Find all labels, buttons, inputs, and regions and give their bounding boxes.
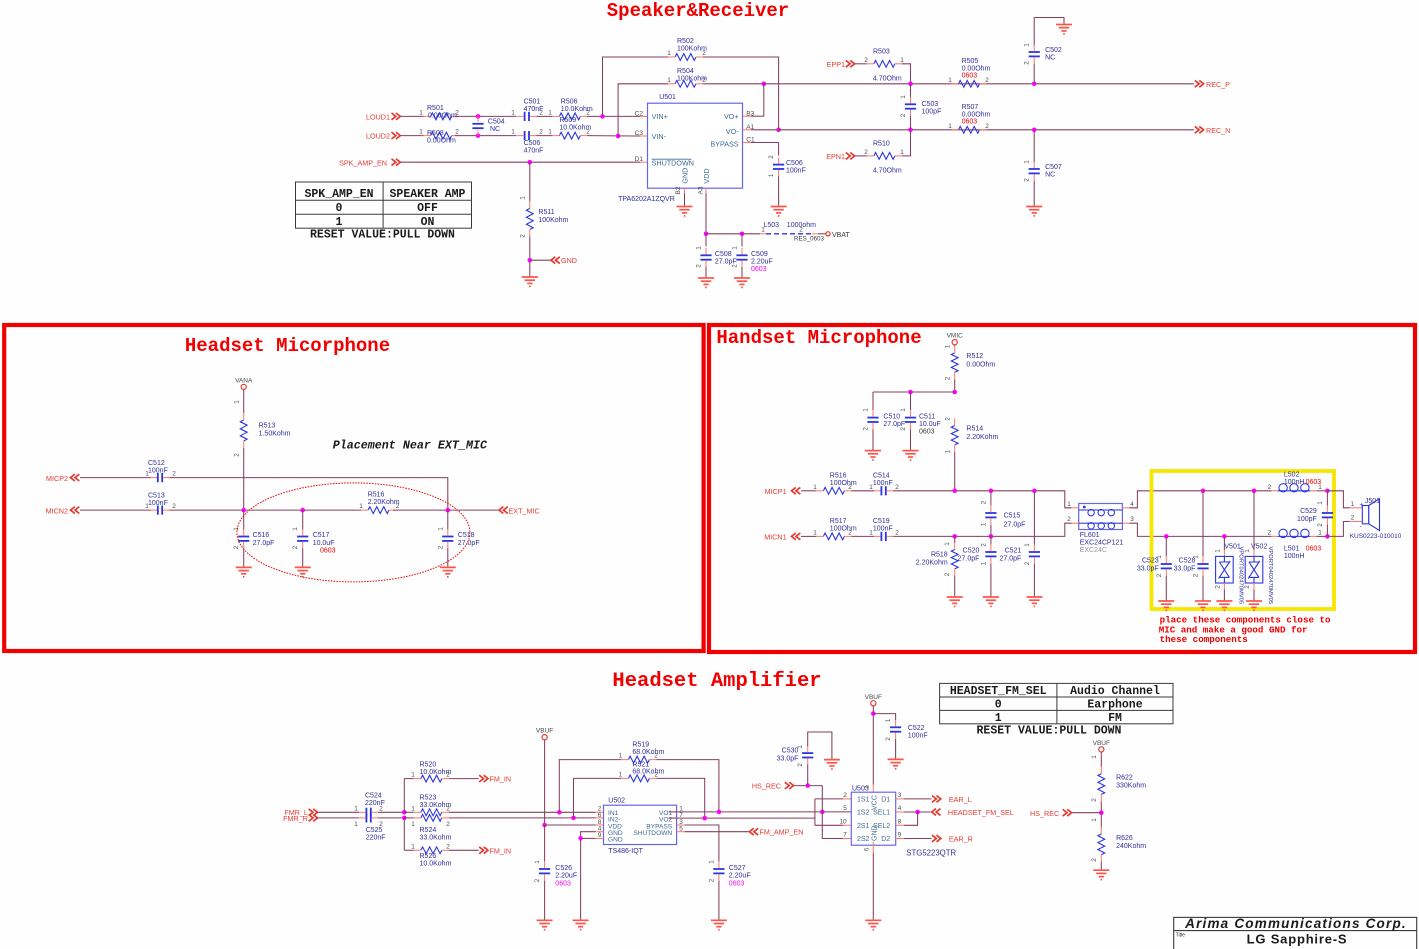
svg-text:R504: R504 xyxy=(677,68,694,75)
svg-text:1: 1 xyxy=(419,129,423,136)
node VMIC rail right xyxy=(952,390,957,395)
ground C502 top xyxy=(1056,24,1072,26)
ground below R511 xyxy=(522,276,538,278)
svg-text:R503: R503 xyxy=(873,48,890,55)
svg-text:2: 2 xyxy=(945,376,952,380)
amplifier U502 xyxy=(604,805,677,844)
ground U503 xyxy=(865,919,881,921)
inductor L503 xyxy=(760,233,766,235)
svg-text:C512: C512 xyxy=(148,460,165,467)
wire R520 to FM_IN xyxy=(449,778,479,780)
ground C521 xyxy=(1026,596,1042,598)
resistor R519 xyxy=(559,760,621,813)
svg-text:100nH: 100nH xyxy=(1284,553,1305,560)
port REC_N xyxy=(1195,126,1204,133)
svg-text:2: 2 xyxy=(1268,530,1272,537)
svg-text:2: 2 xyxy=(980,500,987,504)
svg-text:NC: NC xyxy=(1045,55,1055,62)
wire LOUD1 to R501 xyxy=(401,115,424,117)
svg-text:C526: C526 xyxy=(555,865,572,872)
resistor R512 xyxy=(951,353,958,372)
svg-text:1: 1 xyxy=(948,77,952,84)
svg-text:VDD: VDD xyxy=(702,168,711,183)
capacitor C525 xyxy=(365,813,367,822)
node C503 bottom xyxy=(908,128,913,133)
wire VO2 line xyxy=(669,817,677,819)
wire VDD pin to VBUF rail xyxy=(596,824,604,826)
svg-text:1: 1 xyxy=(667,77,671,84)
resistor R520 xyxy=(421,775,442,782)
svg-text:100pF: 100pF xyxy=(922,109,942,116)
svg-text:R505: R505 xyxy=(962,58,979,65)
wire R524 to U502 IN2- xyxy=(449,817,596,819)
svg-text:R519: R519 xyxy=(632,741,649,748)
svg-text:Headset Amplifier: Headset Amplifier xyxy=(612,670,821,693)
wire VBUF down xyxy=(544,740,546,825)
capacitor C520 xyxy=(990,536,992,544)
svg-text:RESET VALUE:PULL DOWN: RESET VALUE:PULL DOWN xyxy=(310,228,455,241)
svg-text:VMIC: VMIC xyxy=(947,333,964,340)
svg-text:LOUD2: LOUD2 xyxy=(366,132,390,141)
svg-text:NC: NC xyxy=(1045,172,1055,179)
node FM R xyxy=(402,816,407,821)
svg-text:1: 1 xyxy=(945,344,952,348)
wire VMIC to R512 xyxy=(954,345,956,346)
svg-text:1: 1 xyxy=(995,712,1002,725)
svg-text:240Kohm: 240Kohm xyxy=(1116,843,1146,850)
resistor R518 xyxy=(954,536,956,543)
node C517 top xyxy=(300,508,305,513)
node VO+ feedback xyxy=(762,82,767,87)
svg-text:220nF: 220nF xyxy=(365,800,385,807)
resistor R524 xyxy=(404,817,414,819)
wire C519 to FL601 corner xyxy=(893,523,1072,536)
svg-text:GND: GND xyxy=(871,825,878,841)
svg-text:C522: C522 xyxy=(908,725,925,732)
wire U503 GND down xyxy=(872,842,874,853)
svg-text:SPK_AMP_EN: SPK_AMP_EN xyxy=(304,188,373,201)
svg-text:VPORT0402470MV05: VPORT0402470MV05 xyxy=(1238,547,1244,605)
svg-text:0: 0 xyxy=(336,202,343,215)
wire C512 to corner xyxy=(170,478,448,511)
svg-text:C513: C513 xyxy=(148,492,165,499)
svg-text:B3: B3 xyxy=(746,110,754,117)
wire FL601 pin3 to yellow box xyxy=(1130,523,1272,536)
svg-text:1: 1 xyxy=(1024,43,1031,47)
svg-text:C525: C525 xyxy=(366,827,383,834)
svg-text:2: 2 xyxy=(885,737,892,741)
port HEADSET_FM_SEL xyxy=(932,809,941,816)
svg-text:2: 2 xyxy=(945,417,952,421)
resistor R501 xyxy=(431,113,452,120)
svg-text:C516: C516 xyxy=(253,532,270,539)
wire GND pins xyxy=(596,831,604,833)
svg-text:4: 4 xyxy=(1130,501,1134,508)
resistor R517 xyxy=(823,533,844,540)
ground C508 xyxy=(698,277,714,279)
capacitor C522 xyxy=(890,726,901,728)
svg-text:0603: 0603 xyxy=(1306,545,1322,552)
wire R523 to U502 IN1 xyxy=(449,811,596,813)
svg-text:1: 1 xyxy=(1091,818,1098,822)
svg-text:KUS0223-010010: KUS0223-010010 xyxy=(1350,533,1402,540)
power VMIC xyxy=(952,340,957,345)
svg-text:1: 1 xyxy=(1067,501,1071,508)
wire REC_P line xyxy=(764,83,1194,85)
svg-text:Speaker&Receiver: Speaker&Receiver xyxy=(607,0,789,22)
capacitor C506 bypass xyxy=(773,164,784,166)
svg-text:2: 2 xyxy=(1351,515,1355,522)
svg-text:1.50Kohm: 1.50Kohm xyxy=(259,430,291,437)
wire R504 feedback left xyxy=(618,84,668,136)
wire L502 to C529 xyxy=(1317,490,1328,492)
op-amp U501 xyxy=(648,103,743,188)
svg-text:1: 1 xyxy=(336,216,343,229)
svg-text:2: 2 xyxy=(1268,484,1272,491)
svg-text:R516: R516 xyxy=(830,472,847,479)
capacitor C521 xyxy=(1033,491,1035,545)
capacitor C503 xyxy=(905,103,916,105)
svg-text:0603: 0603 xyxy=(320,548,336,555)
svg-text:1: 1 xyxy=(520,196,527,200)
node C504 bottom xyxy=(476,133,481,138)
table SPK_AMP_EN xyxy=(296,182,472,228)
svg-text:1: 1 xyxy=(732,246,739,250)
node VDD vbuf xyxy=(542,823,547,828)
resistor R508 xyxy=(431,132,452,139)
port EAR_L xyxy=(932,796,941,803)
svg-text:2: 2 xyxy=(1067,516,1071,523)
capacitor C513 xyxy=(157,506,159,515)
svg-text:2: 2 xyxy=(520,234,527,238)
wire EPP1 to R503 xyxy=(855,63,867,65)
svg-text:VO+: VO+ xyxy=(724,112,739,121)
svg-text:these components: these components xyxy=(1160,634,1248,645)
svg-text:C506: C506 xyxy=(786,160,803,167)
wire EPN1 to R510 xyxy=(855,155,867,157)
svg-text:D1: D1 xyxy=(881,797,890,804)
wire VO1 line xyxy=(669,811,677,813)
svg-text:C524: C524 xyxy=(365,793,382,800)
wire U501 BYPASS to C506 xyxy=(743,142,751,144)
wire R514 to MICP1 line xyxy=(954,452,956,491)
svg-text:1: 1 xyxy=(900,149,904,156)
wire VBUF mid down xyxy=(872,706,874,785)
ground C528 xyxy=(1195,600,1211,602)
ground C509 xyxy=(734,277,750,279)
wire LOUD2 to R508 xyxy=(401,135,424,137)
svg-text:0.00Ohm: 0.00Ohm xyxy=(962,111,991,118)
ground C517 xyxy=(295,566,311,568)
capacitor C518 xyxy=(447,510,449,529)
capacitor C526 xyxy=(544,825,546,862)
svg-text:2: 2 xyxy=(944,572,951,576)
svg-text:VANA: VANA xyxy=(235,377,253,384)
svg-text:1: 1 xyxy=(1317,501,1324,505)
svg-text:C509: C509 xyxy=(751,251,768,258)
node R513 bottom xyxy=(241,508,246,513)
svg-text:2: 2 xyxy=(1091,798,1098,802)
svg-text:1: 1 xyxy=(534,860,541,864)
svg-text:VO-: VO- xyxy=(726,127,739,136)
wire C529 to J501 pin1 xyxy=(1327,491,1349,508)
svg-text:2.20uF: 2.20uF xyxy=(555,873,577,880)
resistor R504 xyxy=(675,80,696,87)
svg-text:R502: R502 xyxy=(677,38,694,45)
capacitor C517 xyxy=(302,510,304,529)
svg-text:VIN+: VIN+ xyxy=(652,112,668,121)
svg-text:R626: R626 xyxy=(1116,835,1133,842)
wire C524 to junction xyxy=(378,811,404,813)
svg-text:1: 1 xyxy=(511,110,515,117)
capacitor C530 xyxy=(807,765,809,786)
wire R510 to REC_N line xyxy=(902,130,911,156)
node V501 top xyxy=(1222,534,1227,539)
wire R503 to REC_P line xyxy=(902,64,911,84)
svg-text:1: 1 xyxy=(354,805,358,812)
capacitor C506 series xyxy=(524,131,526,140)
wire R502 to VO- node xyxy=(703,57,779,130)
svg-text:10.0uF: 10.0uF xyxy=(313,540,335,547)
svg-text:1: 1 xyxy=(411,843,415,850)
capacitor C523 xyxy=(1165,536,1167,556)
svg-text:C520: C520 xyxy=(963,548,980,555)
svg-text:R516: R516 xyxy=(368,492,385,499)
transformer FL601 xyxy=(1079,504,1123,530)
svg-text:A1: A1 xyxy=(746,124,754,131)
svg-text:470nF: 470nF xyxy=(524,106,544,113)
ground C506 xyxy=(771,206,787,208)
ground V501 xyxy=(1216,600,1232,602)
svg-text:2: 2 xyxy=(1156,573,1163,577)
svg-text:Handset Microphone: Handset Microphone xyxy=(716,327,921,349)
svg-text:2.20Kohm: 2.20Kohm xyxy=(966,434,998,441)
node R518 top xyxy=(952,534,957,539)
svg-text:1: 1 xyxy=(980,522,987,526)
resistor R505 xyxy=(959,80,980,87)
resistor R509 xyxy=(536,135,552,137)
svg-text:1: 1 xyxy=(708,860,715,864)
svg-text:R501: R501 xyxy=(427,105,444,112)
power VBUF left xyxy=(542,735,547,740)
node C522 xyxy=(871,711,876,716)
resistor R521 xyxy=(574,778,622,818)
svg-text:MICP2: MICP2 xyxy=(46,474,68,483)
port EXT_MIC xyxy=(499,507,508,514)
svg-text:R523: R523 xyxy=(420,794,437,801)
svg-text:EPN1: EPN1 xyxy=(826,152,845,161)
svg-text:R517: R517 xyxy=(830,518,847,525)
svg-text:HS_REC: HS_REC xyxy=(752,782,781,791)
svg-text:1: 1 xyxy=(944,542,951,546)
svg-text:0603: 0603 xyxy=(962,118,978,125)
wire REC_N line xyxy=(779,129,1194,131)
svg-text:1: 1 xyxy=(511,129,515,136)
svg-text:2: 2 xyxy=(708,878,715,882)
svg-text:VIN-: VIN- xyxy=(652,132,667,141)
svg-text:27.0pF: 27.0pF xyxy=(958,556,980,563)
node SEL tie xyxy=(915,810,920,815)
svg-text:0.00Ohm: 0.00Ohm xyxy=(428,113,457,120)
svg-text:Title: Title xyxy=(1176,933,1185,939)
wire to L503 xyxy=(742,233,760,235)
svg-text:RESET VALUE:PULL DOWN: RESET VALUE:PULL DOWN xyxy=(977,724,1122,737)
analog switch U503 xyxy=(851,792,895,845)
svg-text:1: 1 xyxy=(696,246,703,250)
wire FL601 pin4 to yellow box xyxy=(1130,491,1272,508)
svg-text:Placement Near EXT_MIC: Placement Near EXT_MIC xyxy=(333,439,488,453)
svg-text:2: 2 xyxy=(172,471,176,478)
svg-text:L502: L502 xyxy=(1284,472,1300,479)
resistor R510 xyxy=(874,153,895,160)
capacitor C515 xyxy=(990,491,992,506)
svg-text:470nF: 470nF xyxy=(524,148,544,155)
wire R508 to C506 series xyxy=(455,135,517,137)
resistor R506 xyxy=(536,115,552,117)
svg-text:C517: C517 xyxy=(313,532,330,539)
capacitor C529 xyxy=(1326,491,1328,506)
svg-text:0603: 0603 xyxy=(751,266,767,273)
node HS_REC divider xyxy=(1099,810,1104,815)
node GND port junction xyxy=(528,258,533,263)
svg-text:2: 2 xyxy=(1024,178,1031,182)
resistor R503 xyxy=(874,60,895,67)
wire D1 to EAR_L xyxy=(896,798,904,800)
svg-text:10: 10 xyxy=(839,818,847,825)
svg-text:0.00Ohm: 0.00Ohm xyxy=(427,138,456,145)
svg-text:1: 1 xyxy=(813,484,817,491)
svg-text:1: 1 xyxy=(980,561,987,565)
ground U502 GND xyxy=(573,919,589,921)
svg-text:FM_IN: FM_IN xyxy=(490,775,512,784)
svg-text:VBUF: VBUF xyxy=(536,728,553,735)
svg-text:VPORT0402470MV05: VPORT0402470MV05 xyxy=(1267,547,1273,605)
svg-text:27.0pF: 27.0pF xyxy=(253,540,275,547)
svg-text:0: 0 xyxy=(995,699,1002,712)
power VANA xyxy=(241,384,246,389)
wire R504 to VO+ node xyxy=(703,83,764,85)
ground C520 xyxy=(983,596,999,598)
svg-text:100nF: 100nF xyxy=(873,480,893,487)
resistor R523 xyxy=(404,811,414,813)
wire C506 to ground xyxy=(778,176,780,206)
svg-text:OFF: OFF xyxy=(417,202,438,215)
svg-text:0603: 0603 xyxy=(919,429,935,436)
ground C510 xyxy=(865,450,881,452)
svg-text:100pF: 100pF xyxy=(1297,516,1317,523)
node C523 top xyxy=(1164,534,1169,539)
node C507 top xyxy=(1032,128,1037,133)
svg-text:100nF: 100nF xyxy=(148,467,168,474)
wire MICN1 to R517 xyxy=(801,535,816,537)
node R521 out xyxy=(702,816,707,821)
svg-text:C2: C2 xyxy=(635,110,644,117)
node R521 in xyxy=(571,816,576,821)
ground C526 xyxy=(537,919,553,921)
port GND xyxy=(530,259,552,261)
power VBUF right xyxy=(1099,747,1104,752)
svg-text:2: 2 xyxy=(534,878,541,882)
wire R506 to U501 VIN+ xyxy=(587,115,640,117)
svg-text:2: 2 xyxy=(797,763,804,767)
capacitor C511 xyxy=(910,392,912,410)
svg-text:2: 2 xyxy=(446,821,450,828)
svg-text:100nF: 100nF xyxy=(908,733,928,740)
svg-text:R508: R508 xyxy=(427,130,444,137)
node HS_REC tie xyxy=(820,810,825,815)
svg-text:U501: U501 xyxy=(659,94,676,101)
wire VO- pin xyxy=(743,129,751,131)
svg-text:C528: C528 xyxy=(1179,558,1196,565)
svg-text:V502: V502 xyxy=(1251,544,1267,551)
ground R518 xyxy=(947,596,963,598)
title block xyxy=(1174,917,1417,949)
capacitor C501 xyxy=(524,112,526,121)
wire VBUF right down xyxy=(1100,752,1102,767)
svg-text:4.70Ohm: 4.70Ohm xyxy=(873,75,902,82)
svg-text:R511: R511 xyxy=(538,209,554,216)
svg-text:2: 2 xyxy=(985,77,989,84)
svg-text:2: 2 xyxy=(234,453,241,457)
svg-text:100Kohm: 100Kohm xyxy=(677,76,707,83)
power VBUF mid xyxy=(871,701,876,706)
node VO- REC_N xyxy=(776,128,781,133)
svg-text:R520: R520 xyxy=(420,761,437,768)
svg-text:TS486-IQT: TS486-IQT xyxy=(608,848,643,855)
capacitor C508 xyxy=(705,234,707,247)
svg-text:1: 1 xyxy=(548,129,552,136)
svg-text:7: 7 xyxy=(843,832,847,839)
svg-text:100Kohm: 100Kohm xyxy=(677,46,707,53)
svg-text:100nF: 100nF xyxy=(148,500,168,507)
svg-text:1: 1 xyxy=(885,718,892,722)
svg-text:Arima Communications Corp.: Arima Communications Corp. xyxy=(1184,916,1407,931)
svg-text:1: 1 xyxy=(945,449,952,453)
svg-text:VBUF: VBUF xyxy=(865,694,882,701)
capacitor C516 xyxy=(243,510,245,529)
svg-text:1: 1 xyxy=(667,50,671,57)
svg-text:10.0Kohm: 10.0Kohm xyxy=(420,860,452,867)
svg-text:2: 2 xyxy=(843,792,847,799)
svg-text:FL601: FL601 xyxy=(1080,532,1100,539)
svg-text:1: 1 xyxy=(1214,549,1221,553)
svg-text:R514: R514 xyxy=(966,426,983,433)
svg-text:27.0pF: 27.0pF xyxy=(1004,522,1026,529)
svg-text:HEADSET_FM_SEL: HEADSET_FM_SEL xyxy=(950,685,1047,698)
wire R526 to FM_IN xyxy=(449,849,479,851)
svg-text:ON: ON xyxy=(421,216,435,229)
wire C530 top hook xyxy=(808,732,832,759)
svg-text:100nH: 100nH xyxy=(1284,479,1305,486)
svg-text:2: 2 xyxy=(1024,561,1031,565)
port FM_IN upper xyxy=(479,775,488,782)
svg-text:27.0pF: 27.0pF xyxy=(1000,556,1022,563)
svg-text:C3: C3 xyxy=(635,130,644,137)
node VIN- junction xyxy=(616,134,621,139)
svg-text:8: 8 xyxy=(898,818,902,825)
svg-text:1: 1 xyxy=(1318,530,1322,537)
svg-text:2.20Kohm: 2.20Kohm xyxy=(368,499,400,506)
svg-text:100Ohm: 100Ohm xyxy=(830,525,857,532)
svg-text:68.0Kohm: 68.0Kohm xyxy=(632,749,664,756)
svg-text:L501: L501 xyxy=(1284,545,1300,552)
svg-text:C530: C530 xyxy=(782,748,799,755)
svg-text:100nF: 100nF xyxy=(873,525,893,532)
capacitor C507 xyxy=(1033,130,1035,162)
svg-text:R507: R507 xyxy=(962,104,979,111)
svg-text:4: 4 xyxy=(898,805,902,812)
wire HS_REC down to 2S2 xyxy=(822,786,843,839)
